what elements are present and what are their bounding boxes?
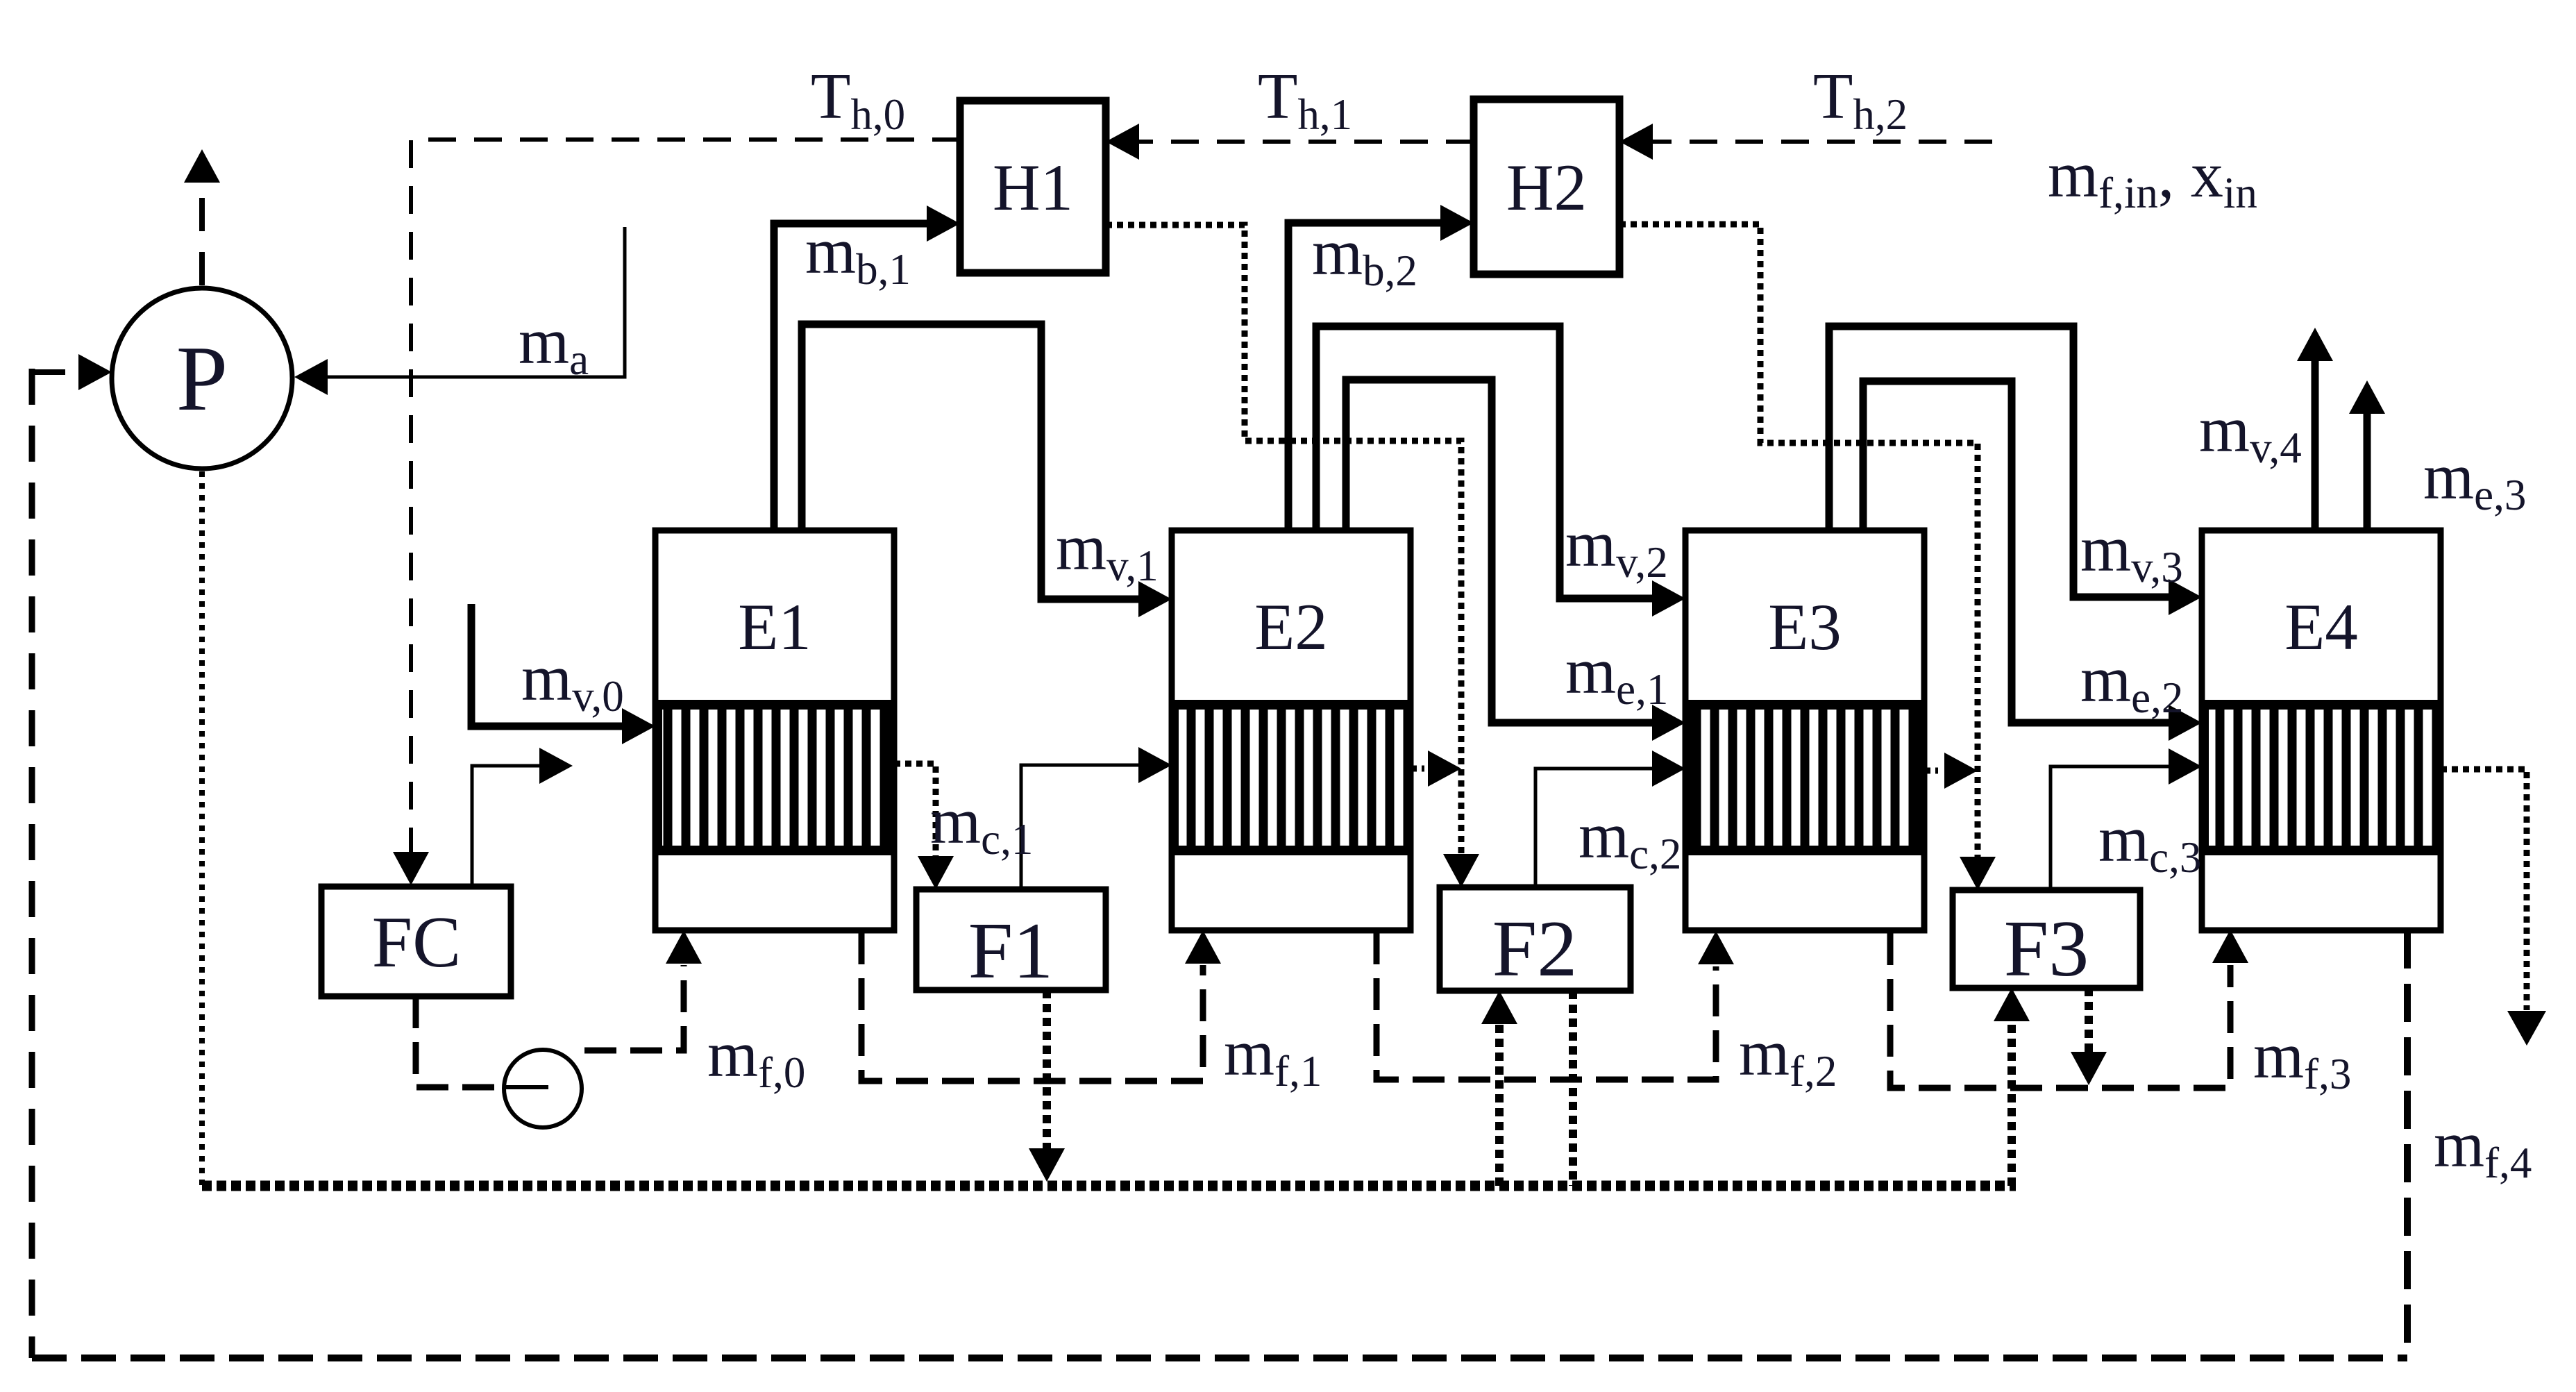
wire mf0 dashed from valve to E1 bottom bbox=[584, 965, 684, 1050]
wire dotted E3 stub junction bbox=[1924, 768, 1938, 774]
evaporator E2 bbox=[1172, 530, 1411, 930]
wire dotted from P bottom to condensate line bbox=[199, 471, 205, 1186]
wire mb1 pipe E1 top to H1 bbox=[774, 224, 930, 530]
svg-text:F1: F1 bbox=[968, 907, 1054, 996]
svg-text:E3: E3 bbox=[1768, 590, 1842, 664]
wire dashed up from pump P bbox=[199, 183, 205, 285]
wire Th2 dashed into H2 right bbox=[1653, 140, 1992, 144]
wire Th1 dashed from H2 left to H1 right bbox=[1139, 140, 1474, 144]
arrow Th2 into H2 bbox=[1619, 124, 1653, 160]
wire me3 vapor out of E4 bbox=[2364, 411, 2371, 530]
arrow Th1 into H1 bbox=[1106, 124, 1139, 160]
wire mc3 F3 top to E4 bbox=[2051, 766, 2172, 890]
wire mc1 F1 top to E2 bbox=[1021, 765, 1142, 889]
arrow up output of P bbox=[184, 149, 220, 183]
wire condensate bottom dotted line bbox=[202, 1181, 2016, 1191]
wire mf0 dashed FC to valve circle bbox=[416, 996, 504, 1087]
wire dotted E1 to F1 bbox=[894, 764, 936, 859]
flash tank F2 bbox=[1440, 887, 1631, 991]
wire mf4 left vertical dashed bbox=[29, 369, 35, 1358]
wire dotted H2 to F3 bbox=[1619, 224, 1978, 861]
arrow into P left bbox=[78, 354, 112, 390]
controller FC box bbox=[321, 887, 511, 996]
wire mv1 pipe E1 top to E2 bbox=[802, 324, 1142, 599]
wire mf1 dashed E1 to E2 bbox=[861, 932, 1203, 1081]
flash tank F1 bbox=[916, 889, 1106, 990]
evaporator E4 bbox=[2202, 530, 2441, 930]
wire dashed left loop into pump P bbox=[32, 369, 76, 375]
svg-text:E4: E4 bbox=[2284, 590, 2358, 664]
svg-text:FC: FC bbox=[372, 901, 461, 982]
wire dotted into F2 bottom bbox=[1495, 1024, 1504, 1186]
svg-text:E2: E2 bbox=[1254, 590, 1328, 664]
wire mv3 pipe E3 top to E4 bbox=[1829, 326, 2172, 597]
wire dotted F2 out bbox=[1569, 991, 1577, 1186]
wire mb2 pipe E2 top to H2 bbox=[1288, 223, 1444, 530]
wire mv0 steam into E1 bbox=[471, 604, 625, 726]
svg-text:F2: F2 bbox=[1492, 905, 1578, 993]
evaporator E3 bbox=[1685, 530, 1924, 930]
wire FC output arrow bbox=[472, 766, 541, 887]
wire dotted into F3 bottom bbox=[2007, 1021, 2016, 1186]
arrow mf0 into E1 bottom bbox=[666, 930, 702, 964]
valve pump circle on mf0 bbox=[504, 1050, 582, 1127]
wire mf4 right vertical dashed from E4 bottom bbox=[2404, 930, 2411, 1358]
heater H2 bbox=[1474, 99, 1619, 274]
evaporator E1 bbox=[655, 530, 894, 930]
wire mf3 dashed E3 to E4 bbox=[1890, 933, 2230, 1088]
wire Th0 dashed from H1 left to FC bbox=[411, 140, 960, 853]
wire mv4 vapor out of E4 bbox=[2312, 358, 2319, 530]
wire mv2 pipe E2 top to E3 bbox=[1316, 326, 1656, 598]
wire dotted E4 condensate down bbox=[2441, 769, 2527, 1010]
wire dotted F1 bottom bbox=[1043, 990, 1051, 1152]
wire ma solid into P bbox=[326, 227, 625, 377]
svg-text:F3: F3 bbox=[2004, 905, 2089, 993]
svg-text:E1: E1 bbox=[738, 590, 811, 664]
arrow ma into P bbox=[294, 359, 328, 395]
wire me2 pipe to E4 bbox=[1863, 381, 2172, 723]
svg-text:H1: H1 bbox=[993, 151, 1073, 224]
heater H1 bbox=[960, 101, 1106, 273]
wire mf2 dashed E2 to E3 bbox=[1377, 932, 1716, 1080]
wire mf4 bottom dashed bbox=[32, 1355, 2407, 1361]
flash tank F3 bbox=[1953, 890, 2140, 988]
wire dotted H1 to F2 bbox=[1106, 225, 1461, 857]
svg-text:H2: H2 bbox=[1506, 151, 1587, 224]
pump P circle bbox=[112, 288, 292, 469]
arrow Th0 into FC bbox=[393, 852, 429, 885]
svg-text:P: P bbox=[176, 327, 228, 430]
wire dotted F3 out bbox=[2085, 988, 2093, 1053]
wire dotted E2 stub junction bbox=[1411, 766, 1424, 772]
wire me1 pipe to E3 bbox=[1346, 380, 1656, 723]
wire mc2 F2 top to E3 bbox=[1535, 769, 1656, 887]
